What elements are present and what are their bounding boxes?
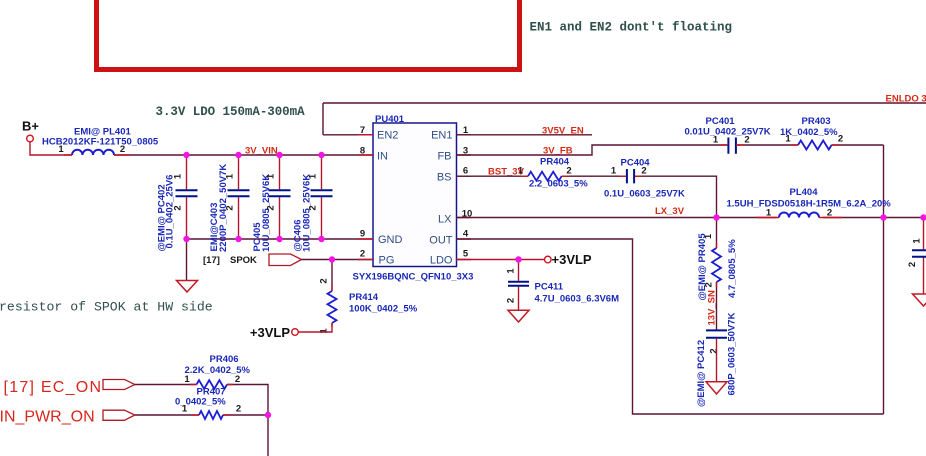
wire LX net — [457, 217, 778, 219]
svg-text:2: 2 — [641, 166, 646, 177]
svg-text:2: 2 — [120, 144, 125, 155]
svg-text:0.1U_0603_25V7K: 0.1U_0603_25V7K — [604, 189, 685, 200]
svg-text:LDO: LDO — [430, 254, 453, 266]
svg-text:2: 2 — [566, 166, 571, 177]
capacitor PC401 plates — [728, 138, 736, 154]
svg-text:2: 2 — [838, 134, 843, 145]
svg-text:EN2: EN2 — [377, 130, 398, 142]
svg-text:EN1 and EN2 dont't floating: EN1 and EN2 dont't floating — [530, 21, 733, 35]
wire PR414 to +3VLP — [298, 323, 332, 332]
svg-text:2: 2 — [744, 135, 749, 146]
wire PG junction down to PR414 — [331, 260, 333, 292]
capacitor PC405 pins (vertical) — [279, 155, 281, 239]
svg-text:BS: BS — [437, 172, 452, 184]
svg-text:+3VLP: +3VLP — [250, 325, 290, 340]
inductor PL401 coil — [72, 150, 114, 155]
svg-text:resistor of SPOK at HW side: resistor of SPOK at HW side — [0, 300, 213, 315]
svg-text:PU401: PU401 — [375, 114, 405, 125]
wire MAIN_PWR_ON to PR407 — [135, 414, 199, 416]
node dot IN/C406 — [318, 152, 324, 158]
svg-text:2: 2 — [236, 404, 241, 415]
svg-text:1: 1 — [225, 173, 236, 179]
wire ENLDO net (top horizontal) — [323, 102, 926, 104]
svg-text:ENLDO 3V5V: ENLDO 3V5V — [886, 94, 926, 105]
svg-text:LX_3V: LX_3V — [655, 206, 685, 217]
ground symbol (PC411) — [508, 310, 529, 322]
svg-text:2: 2 — [709, 348, 720, 353]
svg-text:9: 9 — [360, 229, 365, 240]
wire B+ drop — [30, 142, 72, 155]
wire PR407 to junction — [223, 414, 268, 416]
svg-text:[17] EC_ON: [17] EC_ON — [4, 379, 103, 396]
resistor PR404 — [528, 172, 562, 181]
capacitor right edge plates — [912, 250, 926, 257]
resistor PR405 (vertical) — [712, 248, 721, 282]
wire GND rail (cap bank bottom) — [187, 238, 374, 240]
svg-text:IN: IN — [377, 151, 388, 163]
wire PR403 to output riser — [832, 144, 884, 146]
wire BS net — [457, 175, 529, 177]
svg-text:PC411: PC411 — [535, 282, 564, 293]
svg-text:OUT: OUT — [429, 235, 453, 247]
svg-text:2: 2 — [506, 298, 517, 303]
node dot IN/PC402 — [183, 152, 189, 158]
svg-text:SPOK: SPOK — [230, 255, 257, 266]
svg-text:680P_0603_50V7K: 680P_0603_50V7K — [727, 312, 738, 395]
node dot GND/C406 — [318, 236, 324, 242]
node dot EC_ON/PWR_ON — [265, 412, 271, 418]
wire IN net (B+ rail to chip pin 8) — [114, 154, 373, 156]
svg-text:3V_VIN: 3V_VIN — [245, 146, 278, 157]
svg-text:4.7_0805_5%: 4.7_0805_5% — [727, 239, 738, 298]
connector MAIN_PWR_ON (off-page arrow) — [103, 410, 135, 420]
svg-text:EN1: EN1 — [431, 130, 452, 142]
red component pin leads — [64, 145, 842, 415]
terminal circle +3VLP (lower) — [292, 329, 299, 336]
svg-text:1: 1 — [319, 328, 330, 334]
wire junction down to bottom edge — [267, 415, 269, 456]
connector EC_ON (off-page arrow) — [103, 380, 135, 390]
svg-text:2.2K_0402_5%: 2.2K_0402_5% — [185, 365, 251, 376]
svg-text:2: 2 — [173, 205, 184, 210]
wire output riser (x883.5 vertical) — [883, 145, 885, 414]
wire EN2 vertical riser — [322, 103, 324, 135]
ground symbol (cap bank) — [177, 281, 198, 293]
svg-text:0.01U_0402_25V7K: 0.01U_0402_25V7K — [685, 127, 771, 138]
capacitor PC402 plates — [176, 190, 198, 196]
svg-text:2.2_0603_5%: 2.2_0603_5% — [529, 179, 588, 190]
svg-text:GND: GND — [378, 234, 403, 246]
resistor PR414 (vertical) — [328, 291, 337, 323]
svg-text:5: 5 — [463, 249, 469, 260]
svg-text:IN_PWR_ON: IN_PWR_ON — [0, 409, 95, 426]
resistor PR406 — [197, 380, 228, 389]
capacitor C403 pins (vertical) — [238, 155, 240, 239]
wire OUT net loop — [457, 239, 884, 414]
svg-text:1: 1 — [182, 404, 188, 415]
note box (red callout rectangle, top left, partially off-screen) — [97, 0, 520, 70]
svg-text:LX: LX — [438, 214, 452, 226]
ground symbol (PC412) — [706, 382, 727, 394]
wire PC412 to ground — [716, 339, 718, 382]
svg-text:PC401: PC401 — [706, 116, 736, 127]
svg-text:2: 2 — [360, 249, 365, 260]
wire FB net with step — [457, 145, 728, 155]
wire PL404 to right edge — [823, 217, 926, 219]
svg-text:1: 1 — [506, 268, 517, 274]
svg-text:1: 1 — [58, 144, 64, 155]
svg-text:2: 2 — [308, 205, 319, 210]
inductor PL404 coil — [779, 213, 819, 218]
op-amp U1: regulator chip PU401 — [373, 123, 457, 267]
wire LDO to +3VLP — [457, 259, 545, 261]
svg-text:1: 1 — [518, 166, 524, 177]
svg-text:PG: PG — [379, 254, 395, 266]
svg-text:1.5UH_FDSD0518H-1R5M_6.2A_20%: 1.5UH_FDSD0518H-1R5M_6.2A_20% — [727, 199, 892, 210]
svg-text:PR406: PR406 — [210, 354, 239, 365]
capacitor PC404 plates — [627, 169, 634, 183]
svg-text:SYX196BQNC_QFN10_3X3: SYX196BQNC_QFN10_3X3 — [353, 272, 474, 283]
capacitor C406 plates — [311, 190, 333, 196]
capacitor PC412 plates — [706, 330, 727, 337]
svg-text:PR414: PR414 — [349, 292, 379, 303]
svg-text:2: 2 — [266, 205, 277, 210]
capacitor PC411 pins — [518, 260, 520, 311]
svg-text:1: 1 — [713, 135, 719, 146]
chip pin stubs (red) — [358, 135, 471, 260]
wire PR405 to PC412 — [716, 282, 718, 330]
svg-text:3.3V LDO 150mA-300mA: 3.3V LDO 150mA-300mA — [156, 105, 306, 119]
svg-text:1: 1 — [184, 374, 190, 385]
capacitor C406 pins (vertical) — [321, 155, 323, 239]
svg-text:4: 4 — [463, 229, 469, 240]
svg-text:PR403: PR403 — [802, 116, 831, 127]
svg-text:3V5V_EN: 3V5V_EN — [542, 125, 584, 136]
svg-text:FB: FB — [437, 151, 451, 163]
svg-text:4.7U_0603_6.3V6M: 4.7U_0603_6.3V6M — [535, 294, 620, 305]
svg-text:6: 6 — [463, 166, 468, 177]
wire to ground from GND rail — [186, 239, 188, 281]
capacitor PC402 pins (vertical) — [186, 155, 188, 239]
svg-text:2: 2 — [319, 278, 330, 283]
node dot GND/PC402 — [183, 236, 189, 242]
svg-text:2: 2 — [704, 282, 715, 287]
terminal circle +3VLP — [545, 256, 552, 263]
wire PC401 to PR403 — [736, 144, 798, 146]
node dot IN/C403 — [235, 152, 241, 158]
node dot LDO/PC411 — [515, 256, 521, 262]
wire PR406 to junction riser — [227, 385, 268, 416]
capacitor PC405 plates — [269, 190, 291, 196]
svg-text:@EMI@ PC412: @EMI@ PC412 — [696, 340, 707, 407]
node dot output/right cap — [920, 214, 926, 220]
capacitor C403 plates — [228, 190, 250, 196]
svg-text:10U_0805_25V6K: 10U_0805_25V6K — [302, 174, 313, 252]
resistor PR403 — [798, 141, 832, 150]
svg-text:2: 2 — [907, 262, 918, 267]
svg-text:3V_FB: 3V_FB — [543, 145, 573, 156]
svg-text:2: 2 — [225, 205, 236, 210]
svg-text:1: 1 — [266, 173, 277, 179]
terminal circle B+ — [27, 135, 34, 142]
svg-text:B+: B+ — [22, 119, 39, 134]
wire SPOK to PG — [302, 259, 374, 261]
ground symbol (right edge) — [913, 294, 926, 306]
svg-text:10U_0805_25V6K: 10U_0805_25V6K — [261, 174, 272, 252]
capacitor PC411 plates — [508, 282, 529, 286]
svg-text:1: 1 — [611, 166, 617, 177]
svg-text:2: 2 — [235, 374, 240, 385]
wire PR404 to PC404 — [562, 175, 626, 177]
wire LX junction down to PR405 — [716, 218, 718, 249]
svg-text:1: 1 — [308, 173, 319, 179]
svg-text:[17]: [17] — [203, 255, 220, 266]
node dot GND/PC405 — [276, 236, 282, 242]
connector SPOK (off-page arrow) — [269, 254, 302, 266]
node dot output/PR403 — [880, 214, 886, 220]
svg-text:PR404: PR404 — [540, 157, 570, 168]
resistor PR407 — [199, 411, 223, 419]
node dot GND/C403 — [235, 236, 241, 242]
svg-text:1: 1 — [912, 238, 923, 244]
svg-text:+3VLP: +3VLP — [552, 252, 592, 267]
svg-text:1: 1 — [173, 173, 184, 179]
svg-text:PL404: PL404 — [790, 187, 819, 198]
node dot PG/PR414 — [329, 256, 335, 262]
wire EN2 to chip — [323, 134, 373, 136]
wire EC_ON to PR406 — [135, 384, 197, 386]
wire PC404 to LX riser — [635, 176, 717, 217]
wire EN1 net — [457, 134, 593, 136]
svg-text:100K_0402_5%: 100K_0402_5% — [349, 304, 418, 315]
node dot LX/PR405 — [713, 214, 719, 220]
node dot IN/PC405 — [276, 152, 282, 158]
svg-text:1: 1 — [785, 134, 791, 145]
wire right edge cap branch — [923, 218, 925, 295]
